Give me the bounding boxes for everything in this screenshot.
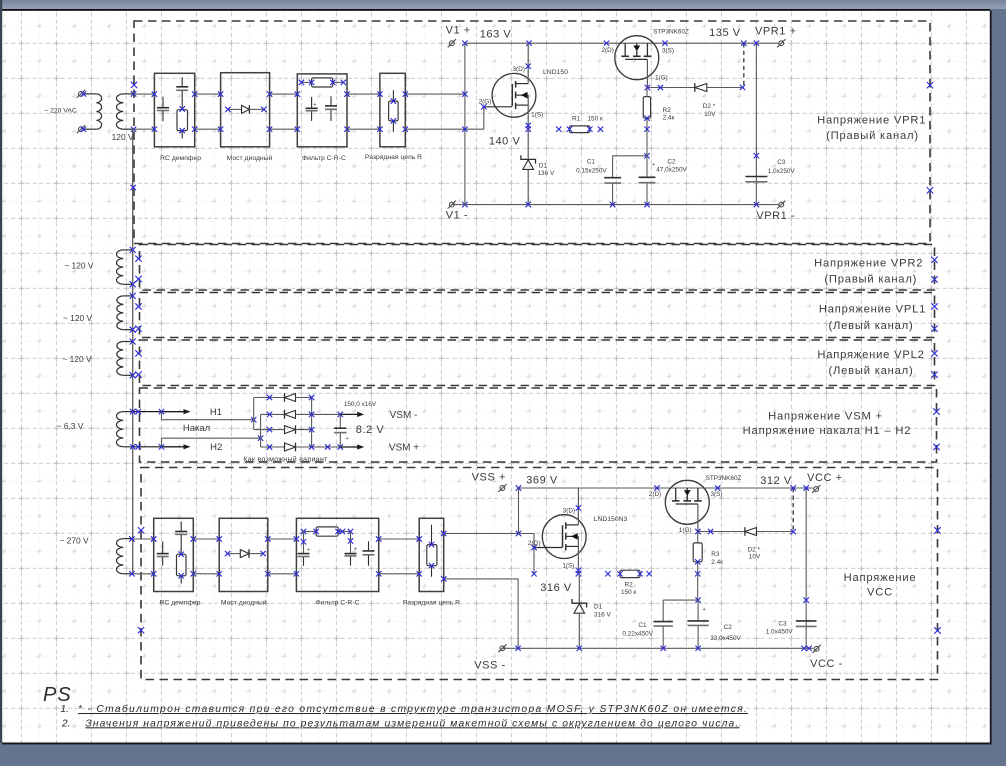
svg-text:Напряжение VPR1: Напряжение VPR1: [817, 115, 926, 127]
wire bridge2->filter2: [268, 539, 297, 574]
label PS: [43, 684, 72, 706]
label Мост диодный 2: [221, 599, 267, 607]
svg-text:1.0х450V: 1.0х450V: [766, 629, 794, 636]
RC2 series branch cap: [175, 521, 187, 554]
label 120 V: [112, 132, 134, 142]
label 2(G) 2: [528, 540, 541, 547]
label 150,0 x16V: [344, 401, 377, 408]
capacitor VSM 150uF: [334, 414, 349, 447]
svg-text:(Левый канал): (Левый канал): [828, 320, 913, 332]
node markers discharge box: [377, 91, 408, 131]
transformer T1 secondary 120V winding: [116, 94, 132, 129]
label ~220 VAC: [44, 107, 77, 114]
label ~120 V b: [63, 313, 93, 323]
label VSS -: [474, 659, 505, 671]
transformer winding 6.3V: [116, 412, 132, 447]
wire VSS- bus: [502, 646, 813, 651]
svg-text:D2 *: D2 *: [703, 103, 716, 110]
node markers bridge box: [218, 91, 272, 131]
resistor R3 2.4k: [693, 532, 702, 577]
resistor R2 150k bottom: [605, 570, 652, 577]
note 1: [60, 703, 748, 715]
label V1 -: [446, 210, 468, 222]
diode VSM row3: [254, 425, 315, 434]
svg-text:R1: R1: [572, 115, 581, 122]
svg-text:VSM -: VSM -: [390, 410, 418, 421]
svg-text:1(S): 1(S): [531, 111, 543, 118]
wire primary top stub: [84, 93, 96, 95]
label 1(S): [531, 111, 543, 118]
svg-text:150 к: 150 к: [588, 115, 603, 122]
zener D1 2: [572, 574, 587, 649]
svg-text:+: +: [354, 546, 357, 552]
wire bottom rail trafo->RC: [129, 536, 154, 576]
label 2(D): [601, 47, 613, 54]
label 3(D) 2: [563, 508, 575, 515]
title VPL2: [817, 349, 924, 377]
label VSS +: [472, 471, 506, 483]
svg-text:Напряжение накала H1 – H2: Напряжение накала H1 – H2: [743, 425, 912, 437]
transistor Q2 STP3NK60Z: [615, 36, 659, 88]
diode VSM row4: [261, 443, 343, 452]
svg-text:0,15х250V: 0,15х250V: [576, 167, 607, 174]
wire H2 branch to bridge: [162, 436, 264, 447]
wire filter->discharge: [347, 94, 380, 129]
discharge2 resistor: [427, 525, 437, 577]
filter2 cap 2: [345, 532, 358, 566]
zener D1: [521, 129, 536, 204]
svg-text:VCC: VCC: [867, 587, 893, 599]
svg-text:~ 6,3 V: ~ 6,3 V: [57, 421, 84, 431]
svg-text:2,4к: 2,4к: [663, 115, 675, 122]
terminal VPR1+: [777, 39, 785, 47]
note 2: [61, 718, 739, 729]
svg-text:V1 +: V1 +: [446, 24, 471, 36]
svg-text:Напряжение VPR2: Напряжение VPR2: [814, 258, 923, 270]
label 135 V: [709, 27, 741, 39]
wire gate row: [645, 85, 695, 90]
svg-text:2.4к: 2.4к: [711, 559, 723, 566]
svg-text:VCC +: VCC +: [807, 472, 842, 484]
label Фильтр C-R-C 2: [316, 600, 360, 607]
svg-text:(Правый канал): (Правый канал): [824, 274, 917, 286]
block diode bridge 2: [219, 518, 268, 591]
label 3(S): [662, 48, 674, 55]
svg-text:369 V: 369 V: [526, 474, 558, 486]
wire discharge->V1 bus: [405, 94, 484, 129]
svg-text:2(G): 2(G): [479, 98, 492, 105]
svg-text:C3: C3: [778, 621, 787, 628]
transformer winding 270V: [116, 539, 132, 574]
wire primary bottom stub: [84, 128, 96, 130]
svg-text:~ 220 VAC: ~ 220 VAC: [44, 107, 77, 114]
wire left rail vertical: [132, 129, 134, 574]
label ~120 V c: [62, 354, 92, 364]
filter cap 1: [306, 97, 318, 121]
transformer winding 120V VPR2: [117, 250, 133, 284]
label STP3NK60Z 2: [706, 475, 742, 482]
wire top 163V bus: [465, 41, 779, 46]
section box VPL1: [140, 293, 935, 338]
block RC snubber 2: [154, 518, 194, 591]
label D2*: [703, 103, 716, 118]
svg-text:2(G): 2(G): [528, 540, 541, 547]
label C1 bottom: [622, 622, 653, 638]
title VCC: [844, 572, 917, 599]
svg-text:R2: R2: [625, 582, 634, 589]
label VPR1 +: [755, 26, 797, 38]
svg-text:H2: H2: [210, 442, 222, 453]
section box VSM: [140, 388, 937, 462]
terminal VSS+: [498, 484, 506, 492]
transistor Q4 STP3NK60Z 2: [665, 480, 709, 531]
RC series branch cap: [176, 77, 188, 109]
label 136 V: [538, 170, 555, 177]
label Мост диодный: [227, 154, 273, 162]
svg-text:+: +: [307, 547, 310, 553]
label 312 V: [760, 475, 792, 487]
svg-text:1.: 1.: [60, 704, 69, 715]
diode D2 2: [745, 527, 796, 536]
svg-text:R3: R3: [711, 551, 720, 558]
dashed wire D2 to bus 2: [791, 485, 796, 531]
svg-text:Напряжение VSM +: Напряжение VSM +: [768, 411, 883, 423]
terminal 220VAC bottom: [77, 125, 85, 133]
label Фильтр C-R-C: [302, 155, 346, 162]
svg-text:RC демпфер: RC демпфер: [160, 600, 201, 607]
label D2* 2: [748, 547, 761, 561]
node markers winding VPL2: [130, 339, 136, 379]
svg-text:2.: 2.: [61, 718, 71, 729]
label H2: [210, 442, 222, 453]
node marker left rail: [131, 185, 136, 190]
svg-text:VSS +: VSS +: [472, 471, 506, 483]
transformer winding 120V VPL1: [117, 296, 133, 330]
label C3 bottom: [766, 621, 794, 636]
label 8.2 V: [356, 424, 385, 436]
wire bridge left A: [253, 398, 255, 430]
wire RC->bridge: [195, 94, 221, 129]
svg-text:PS: PS: [43, 684, 72, 706]
wire VCC vertical: [804, 485, 809, 648]
wire bridge->filter: [270, 94, 298, 129]
wire R2 bus to caps: [646, 129, 648, 156]
svg-text:0,22х450V: 0,22х450V: [622, 630, 653, 637]
svg-text:D1: D1: [594, 604, 603, 611]
node markers bridge2 box: [217, 536, 271, 576]
svg-text:Разрядная цепь R: Разрядная цепь R: [403, 600, 460, 607]
svg-text:1,0х250V: 1,0х250V: [768, 168, 796, 175]
label 1(S) 2: [562, 563, 574, 570]
svg-text:10V: 10V: [749, 553, 761, 560]
label LND150: [543, 69, 568, 76]
diode VSM row2: [261, 410, 343, 419]
label VSM -: [390, 410, 418, 421]
svg-text:3(D): 3(D): [563, 508, 575, 515]
svg-text:+: +: [703, 607, 706, 613]
svg-text:163 V: 163 V: [480, 29, 512, 41]
transistor Q3 LND150N3: [534, 488, 586, 574]
title VPL1: [819, 304, 926, 333]
block discharge R 2: [419, 518, 444, 591]
svg-text:Накал: Накал: [183, 423, 210, 434]
label D1: [539, 162, 548, 169]
label R2 150k bottom: [621, 582, 636, 597]
svg-text:~ 120 V: ~ 120 V: [63, 313, 93, 323]
label R3 2.4k: [711, 551, 723, 566]
capacitor C1: [604, 156, 621, 205]
label H1: [210, 407, 222, 418]
node markers on section box edges: [131, 82, 941, 634]
block RC snubber: [154, 73, 194, 147]
svg-text:316 V: 316 V: [594, 611, 611, 618]
svg-text:C2: C2: [667, 158, 676, 165]
wire gate link: [519, 534, 535, 549]
svg-text:2(D): 2(D): [649, 491, 661, 498]
terminal VSS-: [498, 644, 506, 652]
wire V1 vertical: [462, 41, 467, 208]
wire filter2->discharge2: [379, 539, 420, 574]
svg-text:Напряжение: Напряжение: [844, 572, 917, 584]
diode bridge symbol: [225, 105, 266, 114]
filter2 resistor: [301, 527, 353, 536]
label 163 V: [480, 29, 512, 41]
section box VCC: [141, 468, 938, 680]
svg-text:* - Стабилитрон ставится при: * - Стабилитрон ставится при его отсутст…: [78, 703, 748, 715]
wire discharge2 top out: [441, 531, 521, 536]
label ~6,3 V: [57, 421, 84, 431]
terminal VCC+: [812, 485, 820, 493]
svg-text:+: +: [346, 436, 349, 442]
label 3(D): [512, 66, 524, 73]
svg-text:316 V: 316 V: [540, 582, 572, 594]
label как возможный вариант: [243, 455, 328, 463]
svg-text:C2: C2: [724, 624, 733, 631]
label ~270 V: [59, 536, 89, 546]
node markers RC2 box: [151, 536, 196, 576]
svg-text:VSM +: VSM +: [389, 443, 419, 454]
block diode bridge: [221, 73, 270, 147]
label VCC +: [807, 472, 842, 484]
RC series branch resistor: [177, 106, 188, 138]
label STP3NK60Z: [653, 29, 689, 36]
wire VSM+ out: [340, 444, 364, 449]
section box VPR1: [134, 21, 930, 244]
wire top rail trafo->RC: [134, 94, 155, 129]
node markers filter2 box: [294, 536, 382, 576]
svg-text:(Левый канал): (Левый канал): [828, 365, 913, 377]
svg-text:RC демпфер: RC демпфер: [160, 155, 201, 162]
capacitor C2 bottom: [687, 600, 708, 648]
svg-text:1(G): 1(G): [679, 527, 692, 534]
svg-text:D1: D1: [539, 162, 548, 169]
svg-text:R2: R2: [663, 107, 672, 114]
label 2(D) 2: [649, 491, 661, 498]
terminal 220VAC top: [77, 90, 85, 98]
capacitor C2: [639, 156, 656, 205]
label 369 V: [526, 474, 558, 486]
wire bridge right C: [311, 398, 313, 448]
discharge resistor: [389, 90, 399, 132]
svg-text:V1 -: V1 -: [446, 210, 468, 222]
wire VSS+ drop: [516, 485, 521, 533]
label D1 2: [594, 604, 603, 611]
filter resistor: [299, 78, 346, 87]
svg-text:Мост диодный: Мост диодный: [221, 599, 267, 607]
label C2 bottom: [710, 624, 741, 642]
label Разрядная цепь R 2: [403, 600, 460, 607]
wire H1 branch to bridge: [162, 412, 257, 423]
svg-text:Фильтр C-R-C: Фильтр C-R-C: [302, 155, 346, 162]
svg-text:H1: H1: [210, 407, 222, 418]
label VCC -: [810, 658, 843, 670]
filter2 cap 3: [363, 541, 375, 565]
wire R3 bus to caps: [697, 574, 699, 600]
wire discharge2 bottom out: [441, 576, 518, 648]
label LND150N3: [594, 516, 628, 523]
svg-text:1(S): 1(S): [562, 563, 574, 570]
svg-text:Разрядная цепь R: Разрядная цепь R: [365, 154, 422, 161]
svg-text:C1: C1: [587, 159, 596, 166]
svg-text:3(D): 3(D): [512, 66, 524, 73]
label 140 V: [489, 136, 521, 148]
capacitor C3 bottom: [796, 621, 817, 627]
svg-text:312 V: 312 V: [760, 475, 792, 487]
wire RC2->bridge2: [193, 539, 219, 574]
svg-text:C1: C1: [638, 622, 647, 629]
svg-text:+: +: [313, 102, 316, 108]
transformer T1 primary winding: [96, 94, 101, 129]
label VPR1 -: [756, 210, 795, 222]
label 316 V zener: [594, 611, 611, 618]
svg-text:Значения напряжений приведены: Значения напряжений приведены по результ…: [85, 718, 739, 729]
filter2 cap 1: [298, 532, 311, 566]
svg-text:8.2 V: 8.2 V: [356, 424, 385, 436]
capacitor snubber2 C left: [157, 542, 169, 566]
wire H2: [130, 444, 191, 449]
section box VPR2: [140, 245, 935, 291]
svg-text:VCC -: VCC -: [810, 658, 843, 670]
svg-text:Напряжение VPL2: Напряжение VPL2: [817, 349, 924, 361]
svg-text:135 V: 135 V: [709, 27, 741, 39]
wire LND2 gate down: [531, 545, 536, 577]
svg-text:~ 120 V: ~ 120 V: [64, 261, 94, 271]
label 316 V: [540, 582, 572, 594]
svg-text:(Правый канал): (Правый канал): [826, 130, 919, 142]
svg-text:140 V: 140 V: [489, 136, 521, 148]
transistor Q1 LND150: [484, 43, 536, 129]
svg-text:STP3NK60Z: STP3NK60Z: [653, 29, 689, 36]
node markers RC box: [152, 91, 198, 131]
svg-text:LND150: LND150: [543, 69, 568, 76]
label ~120 V a: [64, 261, 94, 271]
title VPR1: [817, 115, 926, 143]
block filter C-R-C: [297, 74, 347, 147]
block discharge R: [380, 73, 405, 147]
label Разрядная цепь R: [365, 154, 422, 161]
wire bridge left B: [260, 414, 262, 447]
svg-text:Фильтр C-R-C: Фильтр C-R-C: [316, 600, 360, 607]
node markers winding VPL1: [130, 293, 136, 333]
svg-text:47,0х250V: 47,0х250V: [656, 166, 687, 173]
block filter C-R-C 2: [296, 518, 378, 591]
svg-text:VSS -: VSS -: [474, 659, 505, 671]
svg-text:Как возможный вариант: Как возможный вариант: [243, 455, 328, 463]
wire C1-C2 top link: [613, 153, 650, 158]
title VPR2: [814, 258, 923, 286]
wire VPR1 vertical: [754, 41, 759, 205]
svg-text:10V: 10V: [704, 111, 716, 118]
label 1(G): [655, 75, 668, 82]
label VSM +: [389, 443, 419, 454]
svg-text:2(D): 2(D): [601, 47, 613, 54]
svg-text:C3: C3: [777, 159, 786, 166]
node markers winding VPR2: [130, 247, 136, 287]
svg-text:Мост диодный: Мост диодный: [227, 154, 273, 162]
svg-text:~ 120 V: ~ 120 V: [62, 354, 92, 364]
resistor R1 150k: [556, 126, 603, 133]
capacitor C1 bottom: [654, 600, 673, 648]
label 2(G): [479, 98, 492, 105]
capacitor snubber C left: [157, 97, 169, 122]
wire VSS+ bus: [519, 485, 814, 490]
svg-text:120 V: 120 V: [112, 132, 134, 142]
svg-text:150 к: 150 к: [621, 589, 636, 596]
capacitor C3: [745, 177, 767, 182]
label V1 +: [446, 24, 471, 36]
label 1(G) 2: [679, 527, 692, 534]
svg-text:3(S): 3(S): [662, 48, 674, 55]
label C1: [576, 159, 607, 175]
diode bridge2 symbol: [225, 549, 266, 558]
dashed wire D2 to bus: [741, 41, 746, 88]
svg-text:VPR1 +: VPR1 +: [755, 26, 797, 38]
svg-text:LND150N3: LND150N3: [594, 516, 628, 523]
svg-text:VPR1 -: VPR1 -: [756, 210, 795, 222]
svg-text:Напряжение VPL1: Напряжение VPL1: [819, 304, 926, 316]
title VSM: [743, 411, 912, 437]
label 3(S) 2: [710, 491, 722, 498]
svg-text:150,0 х16V: 150,0 х16V: [344, 401, 377, 408]
section box VPL2: [140, 340, 935, 386]
wire C1-C2 top link 2: [663, 597, 701, 602]
svg-text:136 V: 136 V: [538, 170, 555, 177]
resistor R2 2.4k: [643, 88, 650, 132]
svg-text:+: +: [652, 162, 655, 168]
diode D2: [695, 83, 745, 92]
wire H1: [130, 409, 191, 414]
wire gate row 2: [695, 529, 745, 534]
label C3: [768, 159, 796, 175]
RC2 series branch resistor: [177, 552, 187, 584]
wire VPR1- bus: [452, 202, 779, 207]
label R2 2.4k: [663, 107, 675, 122]
node marker LND2 source bus: [576, 571, 581, 576]
terminal V1+: [448, 39, 456, 47]
wire VSM- out: [340, 412, 364, 417]
node markers transformer: [81, 91, 137, 132]
transformer winding 120V VPL2: [117, 342, 133, 376]
svg-text:1(G): 1(G): [655, 75, 668, 82]
label C2: [656, 158, 687, 173]
label RC демпфер: [160, 155, 201, 162]
svg-text:STP3NK60Z: STP3NK60Z: [706, 475, 742, 482]
node marker LND source bus: [526, 127, 531, 132]
filter cap 2: [325, 96, 337, 121]
label RC демпфер 2: [160, 600, 201, 607]
terminal VCC-: [812, 645, 820, 653]
terminal VPR1-: [777, 201, 785, 209]
